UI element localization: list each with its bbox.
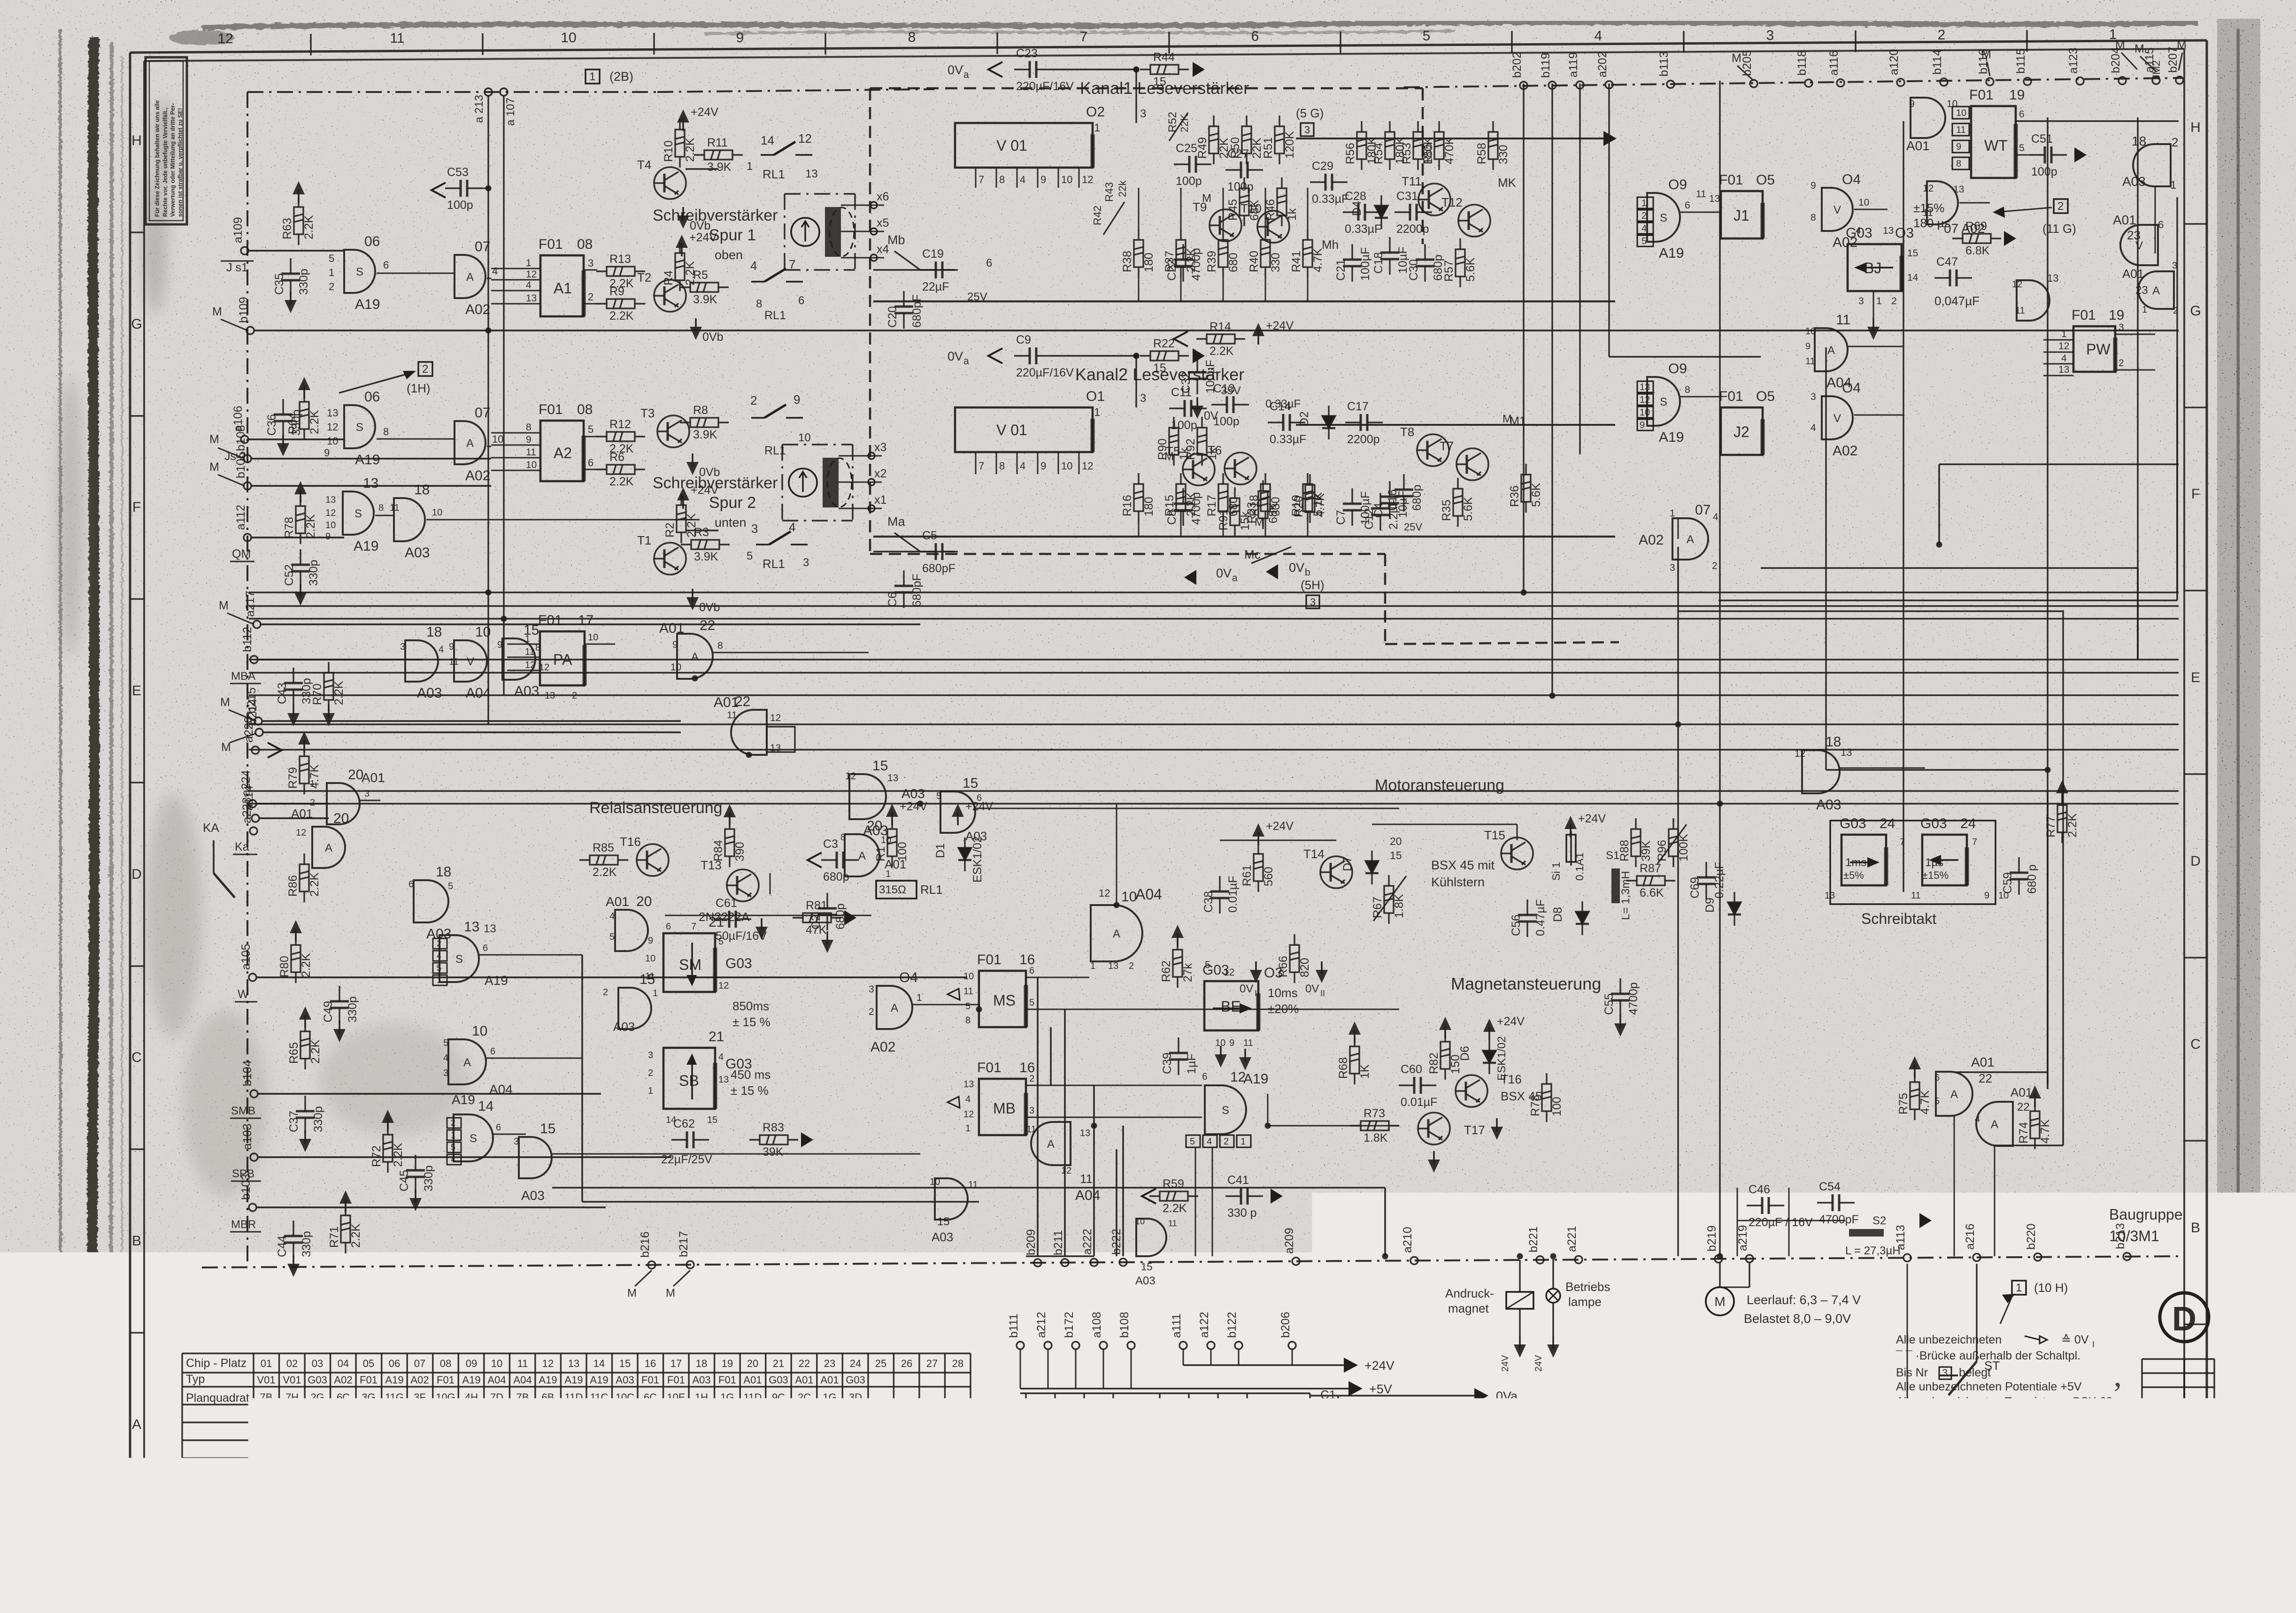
wire a224 bbox=[256, 803, 329, 805]
svg-text:H: H bbox=[131, 133, 142, 148]
svg-text:450 ms: 450 ms bbox=[731, 1068, 770, 1082]
svg-text:1: 1 bbox=[2142, 305, 2147, 315]
svg-text:18: 18 bbox=[436, 864, 451, 880]
svg-text:Verwertung oder Mitteilung an: Verwertung oder Mitteilung an dritte Per… bbox=[170, 103, 176, 217]
wire b105 bbox=[251, 485, 491, 487]
wire bbox=[231, 1181, 261, 1182]
capacitor C58 bbox=[1238, 1393, 1256, 1431]
wire A2 out bbox=[584, 436, 597, 438]
svg-text:4: 4 bbox=[1207, 1137, 1212, 1147]
svg-text:680p: 680p bbox=[1432, 254, 1445, 281]
wire A1 out2 bbox=[584, 303, 597, 305]
capacitor C16 bbox=[1395, 474, 1413, 512]
svg-text:b102: b102 bbox=[1171, 1428, 1184, 1454]
svg-text:4: 4 bbox=[439, 645, 444, 655]
wire bbox=[1939, 463, 2179, 465]
wire to V01 pin3 bbox=[1135, 69, 1137, 123]
svg-text:Relaisansteuerung: Relaisansteuerung bbox=[589, 799, 723, 817]
svg-text:4700p: 4700p bbox=[1190, 248, 1203, 281]
svg-text:+24V: +24V bbox=[1364, 1359, 1395, 1373]
grid tick bottom bbox=[327, 1510, 329, 1531]
svg-text:F01: F01 bbox=[641, 1374, 659, 1386]
wire bus horizontal bbox=[249, 672, 2179, 673]
wire bbox=[1020, 1349, 1021, 1389]
svg-text:O3: O3 bbox=[1895, 225, 1914, 241]
svg-text:9C: 9C bbox=[772, 1409, 785, 1421]
resistor R38 bbox=[1134, 229, 1143, 278]
node a117 bbox=[1231, 1458, 1239, 1466]
svg-text:R42: R42 bbox=[1091, 206, 1103, 225]
svg-text:Hel: Hel bbox=[1863, 1477, 1880, 1492]
node b220 bbox=[2034, 1253, 2042, 1261]
relay coil RL1 bbox=[876, 881, 917, 899]
svg-text:III: III bbox=[2122, 1402, 2129, 1411]
svg-text:T4: T4 bbox=[637, 158, 651, 172]
svg-text:Rechte vor. Jede unbefugte Ver: Rechte vor. Jede unbefugte Vervielfält., bbox=[162, 108, 169, 217]
svg-text:C: C bbox=[131, 1050, 142, 1065]
node b114 bbox=[1940, 78, 1948, 86]
wire a106 bbox=[248, 438, 344, 440]
wire bbox=[1265, 278, 1266, 301]
svg-text:±15%: ±15% bbox=[1922, 869, 1949, 881]
svg-text:A04: A04 bbox=[513, 1374, 532, 1386]
svg-text:07: 07 bbox=[1695, 502, 1710, 518]
svg-text:M: M bbox=[209, 433, 219, 446]
svg-text:5.6K: 5.6K bbox=[1462, 497, 1475, 521]
svg-text:O4: O4 bbox=[1842, 380, 1861, 396]
power +24V bbox=[1177, 933, 1178, 946]
svg-text:21: 21 bbox=[709, 1029, 724, 1045]
svg-text:3: 3 bbox=[1140, 392, 1146, 405]
svg-text:5.6K: 5.6K bbox=[1464, 257, 1477, 282]
svg-text:+5V: +5V bbox=[1369, 1382, 1392, 1396]
svg-text:10: 10 bbox=[526, 460, 537, 470]
resistor R36 bbox=[1521, 464, 1531, 513]
svg-text:R14: R14 bbox=[1210, 320, 1231, 333]
wire bbox=[1737, 1220, 1845, 1221]
svg-text:A01: A01 bbox=[291, 806, 313, 821]
svg-text:1µs: 1µs bbox=[1925, 856, 1943, 869]
svg-text:2N2222A: 2N2222A bbox=[699, 910, 750, 924]
svg-text:02: 02 bbox=[286, 1358, 298, 1369]
svg-text:O9: O9 bbox=[1668, 177, 1687, 192]
svg-text:D: D bbox=[2190, 853, 2201, 869]
resistor R92 bbox=[1197, 417, 1207, 466]
junction bbox=[746, 752, 752, 758]
svg-text:4: 4 bbox=[1811, 422, 1816, 433]
svg-text:0.22µF: 0.22µF bbox=[1713, 862, 1726, 899]
wire bbox=[1788, 1188, 1790, 1256]
svg-text:¯ ¯ ·Brücke außerhalb der Sch: ¯ ¯ ·Brücke außerhalb der Schaltpl. bbox=[1895, 1349, 2080, 1362]
svg-text:06: 06 bbox=[364, 389, 380, 405]
svg-text:820: 820 bbox=[1298, 958, 1311, 977]
svg-text:2.2K: 2.2K bbox=[609, 475, 634, 488]
node bbox=[485, 88, 492, 96]
svg-text:3: 3 bbox=[1811, 392, 1816, 402]
svg-text:C59: C59 bbox=[2001, 872, 2014, 894]
svg-text:4.7K: 4.7K bbox=[2039, 1119, 2052, 1144]
svg-text:10: 10 bbox=[491, 1358, 502, 1369]
capacitor C13 bbox=[1211, 396, 1249, 413]
svg-text:—: — bbox=[671, 1445, 681, 1457]
wire magnet bbox=[1268, 1125, 1399, 1127]
svg-text:a102: a102 bbox=[1142, 1428, 1155, 1454]
svg-text:F01: F01 bbox=[538, 613, 562, 628]
wire bbox=[552, 1187, 1385, 1189]
svg-text:R3: R3 bbox=[694, 526, 709, 539]
wire bbox=[1116, 804, 1117, 905]
svg-text:330p: 330p bbox=[300, 1231, 313, 1257]
svg-text:R78: R78 bbox=[283, 517, 296, 538]
resistor R65 bbox=[300, 1021, 310, 1069]
svg-text:6: 6 bbox=[977, 793, 982, 803]
grid tick right bbox=[2184, 1323, 2207, 1325]
capacitor C9 bbox=[1014, 347, 1052, 364]
wire bbox=[1954, 1116, 1955, 1256]
gate A01 22 br1 bbox=[1936, 1072, 1972, 1116]
svg-text:A: A bbox=[1950, 1088, 1958, 1101]
svg-text:A19: A19 bbox=[462, 1374, 480, 1386]
svg-text:Si 1: Si 1 bbox=[1550, 862, 1562, 881]
svg-text:8: 8 bbox=[942, 1516, 950, 1532]
svg-text:10/3M1: 10/3M1 bbox=[2109, 1228, 2159, 1244]
node b113 bbox=[1667, 80, 1674, 88]
svg-text:1: 1 bbox=[1670, 508, 1675, 519]
svg-text:2: 2 bbox=[2173, 306, 2178, 316]
wire bbox=[202, 1256, 2182, 1267]
wire bbox=[1052, 69, 1136, 70]
wire bbox=[2047, 791, 2049, 1089]
resistor R1 bbox=[887, 818, 897, 867]
svg-text:A1: A1 bbox=[554, 280, 572, 297]
wire bbox=[1183, 1349, 1184, 1365]
svg-text:18: 18 bbox=[696, 1358, 707, 1369]
wire bus horizontal bbox=[249, 790, 2179, 791]
svg-text:M: M bbox=[212, 305, 222, 318]
svg-text:b220: b220 bbox=[2025, 1223, 2038, 1250]
svg-text:R86: R86 bbox=[286, 875, 300, 897]
resistor R40 bbox=[1261, 229, 1270, 278]
svg-text:±15%: ±15% bbox=[1913, 201, 1944, 215]
wire channel1 top bus bbox=[1296, 138, 1615, 139]
wire bbox=[870, 87, 1423, 90]
svg-text:b115: b115 bbox=[2014, 48, 2027, 74]
svg-text:8: 8 bbox=[1811, 212, 1816, 223]
wire PW pin bbox=[2043, 352, 2073, 353]
wire bbox=[1180, 473, 1182, 474]
svg-text:A03: A03 bbox=[405, 545, 430, 561]
svg-text:C50: C50 bbox=[1200, 1408, 1213, 1430]
svg-text:330p: 330p bbox=[307, 560, 320, 586]
resistor R53 bbox=[1413, 121, 1423, 170]
svg-text:1: 1 bbox=[2178, 1514, 2186, 1529]
svg-text:9: 9 bbox=[1040, 460, 1046, 472]
rail arrow bbox=[1142, 1189, 1156, 1204]
svg-text:D1: D1 bbox=[934, 843, 947, 858]
resistor R50 bbox=[1242, 115, 1251, 164]
svg-text:1: 1 bbox=[2061, 329, 2067, 339]
svg-text:5: 5 bbox=[1205, 960, 1210, 970]
svg-text:Belastet 8,0 – 9,0V: Belastet 8,0 – 9,0V bbox=[1744, 1312, 1851, 1326]
svg-text:MB: MB bbox=[993, 1100, 1016, 1117]
svg-text:10C: 10C bbox=[743, 1409, 762, 1421]
wire A1 pin 13 bbox=[491, 303, 540, 305]
resistor R10 bbox=[675, 119, 685, 168]
junction bbox=[1717, 1253, 1723, 1260]
capacitor C5 bbox=[920, 543, 958, 560]
wire V01 pin 10 bbox=[1058, 452, 1059, 474]
svg-text:F01: F01 bbox=[437, 1374, 455, 1386]
svg-text:8: 8 bbox=[999, 174, 1005, 185]
svg-text:2.2K: 2.2K bbox=[302, 215, 316, 239]
wire bbox=[1131, 1349, 1132, 1389]
wire bbox=[375, 515, 394, 516]
node b205 bbox=[1750, 80, 1757, 87]
svg-text:C54: C54 bbox=[1819, 1180, 1841, 1193]
svg-text:1: 1 bbox=[1549, 1489, 1555, 1501]
svg-text:10: 10 bbox=[1640, 407, 1650, 418]
wire M stub bbox=[227, 613, 254, 624]
svg-text:11: 11 bbox=[390, 503, 400, 513]
wire KA bbox=[213, 840, 215, 873]
svg-text:8: 8 bbox=[756, 298, 762, 310]
rail arrow bbox=[431, 183, 446, 198]
svg-text:MS: MS bbox=[993, 992, 1016, 1009]
svg-text:A01: A01 bbox=[2122, 267, 2144, 281]
svg-text:R62: R62 bbox=[1160, 960, 1173, 982]
svg-text:12: 12 bbox=[232, 1517, 247, 1533]
svg-text:I: I bbox=[2092, 1340, 2095, 1349]
svg-text:330p: 330p bbox=[422, 1165, 435, 1191]
svg-text:9: 9 bbox=[648, 936, 653, 946]
svg-text:08: 08 bbox=[577, 237, 593, 252]
wire bbox=[1307, 473, 1309, 474]
svg-text:100K: 100K bbox=[1677, 834, 1690, 861]
grid tick top bbox=[1168, 32, 1170, 54]
svg-text:0.33µF: 0.33µF bbox=[1345, 223, 1381, 236]
gate 18 A03 mid bbox=[405, 640, 438, 682]
wire bus horizontal bbox=[249, 803, 2179, 804]
svg-text:A: A bbox=[325, 842, 332, 854]
svg-text:18: 18 bbox=[426, 624, 442, 640]
node a220 bbox=[252, 746, 259, 754]
svg-text:R88: R88 bbox=[1618, 840, 1631, 861]
svg-text:2: 2 bbox=[648, 1068, 653, 1078]
node a219 bbox=[1746, 1255, 1753, 1262]
gate 12 13 bbox=[2017, 280, 2049, 321]
wire bbox=[1678, 518, 1679, 539]
svg-text:1.8K: 1.8K bbox=[1393, 894, 1406, 918]
wire bus vertical bbox=[1677, 547, 1679, 1256]
svg-text:Schreibtakt: Schreibtakt bbox=[1861, 910, 1936, 927]
power +24V bbox=[298, 190, 299, 203]
grid tick bottom bbox=[1563, 1508, 1564, 1529]
svg-text:A: A bbox=[466, 437, 474, 450]
svg-text:S: S bbox=[356, 266, 363, 278]
svg-text:3: 3 bbox=[364, 789, 370, 799]
svg-text:0V: 0V bbox=[948, 63, 963, 77]
wire bbox=[1907, 1401, 1949, 1403]
svg-text:7B: 7B bbox=[619, 1461, 632, 1473]
svg-text:22µF/25V: 22µF/25V bbox=[661, 1153, 712, 1166]
svg-text:13: 13 bbox=[1953, 184, 1964, 195]
resistor R74 bbox=[2030, 1100, 2040, 1149]
svg-text:C13: C13 bbox=[1213, 382, 1235, 395]
svg-text:8: 8 bbox=[840, 832, 846, 843]
svg-text:0Vb: 0Vb bbox=[1505, 1414, 1528, 1428]
junction bbox=[2045, 767, 2051, 773]
svg-text:1: 1 bbox=[310, 779, 315, 789]
ground 0V bbox=[682, 207, 684, 220]
gate A01 22 upper bbox=[677, 634, 713, 679]
scan artifact smudge blobs left bbox=[56, 99, 470, 1197]
svg-text:±5%: ±5% bbox=[1843, 869, 1864, 881]
svg-text:3: 3 bbox=[1670, 562, 1675, 573]
wire bbox=[1052, 355, 1136, 356]
svg-text:A2: A2 bbox=[554, 445, 572, 461]
svg-text:8D: 8D bbox=[618, 1427, 632, 1439]
node b122 bbox=[1235, 1342, 1242, 1349]
svg-text:12: 12 bbox=[526, 269, 537, 280]
wire gate out bbox=[426, 519, 700, 521]
capacitor C40 bbox=[1046, 1393, 1064, 1431]
svg-text:3H: 3H bbox=[337, 1427, 350, 1439]
svg-text:1: 1 bbox=[747, 160, 753, 173]
svg-text:b: b bbox=[1305, 567, 1310, 578]
svg-text:15: 15 bbox=[1907, 248, 1918, 259]
wire bbox=[1223, 278, 1224, 301]
ground 0V bbox=[328, 705, 329, 718]
svg-text:RL1: RL1 bbox=[763, 167, 785, 181]
svg-text:a111: a111 bbox=[1170, 1313, 1183, 1338]
grid tick bottom bbox=[1740, 1507, 1741, 1529]
svg-text:A19: A19 bbox=[355, 452, 380, 468]
capacitor C19 bbox=[920, 261, 958, 278]
node b211 bbox=[1061, 1259, 1069, 1267]
wire MB out3 bbox=[1026, 1117, 1202, 1118]
capacitor C4 bbox=[1380, 481, 1399, 519]
svg-text:6B: 6B bbox=[542, 1391, 555, 1403]
svg-text:7: 7 bbox=[1080, 29, 1088, 45]
grid tick left bbox=[130, 782, 144, 783]
svg-text:’: ’ bbox=[2112, 1376, 2123, 1412]
ground 0V bbox=[1619, 1015, 1621, 1028]
wire bbox=[493, 1134, 526, 1135]
svg-text:Ers. f.: Ers. f. bbox=[2104, 1492, 2129, 1503]
svg-text:a201: a201 bbox=[1013, 1428, 1026, 1454]
svg-text:unten: unten bbox=[715, 515, 747, 530]
svg-text:4×: 4× bbox=[1136, 1396, 1149, 1409]
wire bbox=[713, 652, 869, 653]
wire bbox=[2179, 53, 2182, 70]
svg-text:b117: b117 bbox=[1252, 1429, 1265, 1454]
svg-text:9: 9 bbox=[1040, 174, 1046, 185]
junction bbox=[917, 801, 924, 807]
svg-text:6: 6 bbox=[798, 294, 804, 307]
svg-text:23: 23 bbox=[824, 1358, 835, 1369]
title block FEK grid bbox=[2142, 1359, 2214, 1429]
wire A1 pin 1 bbox=[491, 268, 540, 269]
node a122 bbox=[1207, 1342, 1215, 1349]
svg-text:R69: R69 bbox=[1965, 220, 1987, 233]
svg-text:9: 9 bbox=[1984, 891, 1989, 901]
diode D8 bbox=[1576, 901, 1589, 935]
svg-text:T2: T2 bbox=[637, 270, 651, 284]
node a120 bbox=[1897, 79, 1904, 86]
wire bbox=[975, 808, 1399, 809]
svg-text:(2B): (2B) bbox=[609, 69, 633, 84]
wire bus vertical bbox=[2176, 197, 2178, 592]
svg-text:4H: 4H bbox=[337, 1445, 350, 1457]
svg-text:2.2K: 2.2K bbox=[1163, 1202, 1187, 1215]
wire bbox=[1180, 278, 1182, 301]
svg-text:a120: a120 bbox=[1888, 49, 1901, 75]
svg-text:R9: R9 bbox=[609, 285, 624, 298]
svg-text:3: 3 bbox=[588, 257, 593, 269]
svg-text:3G: 3G bbox=[516, 1427, 529, 1439]
wire head to V01 bbox=[873, 269, 955, 270]
svg-text:2.2K: 2.2K bbox=[308, 872, 321, 897]
svg-text:+24V: +24V bbox=[1497, 1015, 1525, 1028]
wire bbox=[1718, 599, 2177, 601]
capacitor C62 bbox=[671, 1131, 709, 1148]
svg-text:2.2K: 2.2K bbox=[392, 1143, 405, 1167]
svg-text:10: 10 bbox=[1061, 460, 1072, 472]
wire O9b out bbox=[1680, 396, 1721, 398]
svg-text:C17: C17 bbox=[1347, 400, 1369, 413]
node b112 bbox=[250, 656, 258, 663]
svg-text:15k: 15k bbox=[1239, 511, 1252, 530]
ground 0V bbox=[1244, 1049, 1246, 1062]
rail arrow bbox=[988, 62, 1002, 77]
wire a114 bbox=[259, 817, 329, 819]
svg-text:9E: 9E bbox=[798, 1427, 811, 1439]
resistor R6 bbox=[596, 465, 645, 474]
svg-text:20: 20 bbox=[636, 894, 652, 909]
wire bbox=[2176, 357, 2178, 600]
svg-text:RL1: RL1 bbox=[764, 309, 786, 322]
svg-text:2: 2 bbox=[588, 291, 593, 303]
svg-text:b221: b221 bbox=[1527, 1226, 1540, 1252]
svg-text:12: 12 bbox=[1640, 395, 1650, 405]
svg-text:0,047µF: 0,047µF bbox=[1934, 294, 1980, 308]
capacitor C39 bbox=[1169, 1037, 1188, 1075]
svg-text:4: 4 bbox=[526, 280, 532, 291]
svg-text:(1H): (1H) bbox=[407, 381, 431, 395]
svg-text:F01: F01 bbox=[1719, 172, 1743, 188]
svg-text:0Vb: 0Vb bbox=[699, 466, 720, 479]
gate O6 A19 bbox=[344, 250, 375, 293]
svg-text:R40: R40 bbox=[1248, 251, 1261, 272]
svg-text:11D: 11D bbox=[744, 1391, 762, 1403]
svg-text:A03: A03 bbox=[965, 829, 987, 843]
svg-text:a 213: a 213 bbox=[473, 95, 485, 123]
transistor T12 bbox=[1458, 205, 1490, 237]
svg-text:a216: a216 bbox=[1964, 1223, 1977, 1250]
wire bus horizontal bbox=[249, 723, 2179, 725]
wire motor top bbox=[1220, 840, 1336, 841]
svg-text:2: 2 bbox=[329, 281, 334, 292]
svg-text:11: 11 bbox=[727, 710, 737, 721]
svg-text:R91: R91 bbox=[1217, 509, 1230, 530]
wire bbox=[1678, 610, 2063, 612]
svg-text:680pF: 680pF bbox=[922, 562, 955, 575]
svg-text:R68: R68 bbox=[1337, 1057, 1350, 1079]
svg-text:8: 8 bbox=[526, 422, 532, 433]
svg-text:6: 6 bbox=[496, 1122, 501, 1133]
svg-text:R: R bbox=[2073, 1390, 2109, 1443]
svg-text:8: 8 bbox=[1685, 384, 1690, 395]
